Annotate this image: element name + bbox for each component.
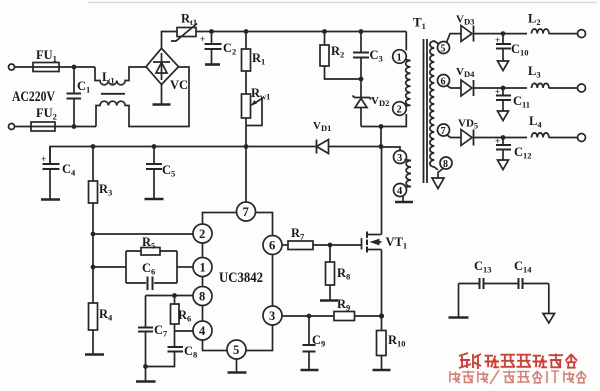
wire pin7s to VD5 [447,135,461,138]
capacitor C1 [73,67,75,94]
potentiometer Rw1 [242,94,251,118]
junction R8 top [328,243,333,248]
svg-text:UC3842: UC3842 [219,270,263,286]
T1 secondary winding [430,41,440,170]
capacitor C13 C14 top wire [459,283,549,285]
bridge rectifier VC [146,48,179,84]
diode VD4 [461,80,472,96]
junction C5 top [152,144,157,149]
watermark line1 text zhangfei shizhan dianzi [485,354,578,369]
DC rail wire right of VD1 [329,146,382,148]
svg-text:+: + [41,154,46,164]
T1 pin 3 [394,151,407,164]
capacitor C4 [49,147,51,164]
svg-text:6: 6 [269,239,275,253]
resistor R10 [381,316,383,331]
T1 pin 5 [438,42,450,54]
T1 pin 8 [440,157,452,169]
inductor L4 [532,133,549,138]
ground bridge [161,85,163,105]
ground C9 [301,369,319,372]
capacitor C2 [211,32,213,44]
svg-text:R10: R10 [388,333,406,349]
transformer core [423,39,425,183]
capacitor C3 [360,32,362,53]
capacitor C5 [153,147,155,164]
watermark logo mark [459,353,481,369]
capacitor C9 [308,316,310,345]
pin 8 [193,287,212,306]
svg-text:L2: L2 [528,12,541,28]
diode VD5 [461,130,472,146]
svg-text:C11: C11 [513,94,530,110]
svg-text:1: 1 [200,261,206,275]
resistor R8 [329,245,331,262]
svg-text:4: 4 [199,324,206,338]
wire VD4 to L3 [474,87,528,89]
wire network to pin 1 [177,266,193,268]
ground R4 [85,353,104,356]
T1 pin 1 [393,50,407,64]
wire L2 to output [549,33,578,35]
junction C12 [501,135,506,140]
svg-text:L1: L1 [102,70,115,86]
svg-text:C8: C8 [184,344,197,360]
scan artifact line top [88,2,597,4]
pin 6 [263,236,282,255]
inductor L1 bottom winding [96,67,189,127]
ground C14 right triangle [548,284,550,314]
junction R5C6 wire [91,265,96,270]
pin 7 [237,202,256,221]
input terminal bottom [9,124,15,130]
capacitor C11 [502,88,504,95]
capacitor C6 [147,277,149,291]
svg-text:AC220V: AC220V [12,89,55,105]
svg-text:R6: R6 [178,308,191,324]
output terminal 2 [578,84,586,92]
svg-text:C3: C3 [370,48,383,64]
capacitor C13 [479,278,481,289]
wire drain up to node [381,147,383,235]
wire bridge top to Rt1 [162,32,178,49]
svg-text:+: + [495,136,500,146]
junction R6 top [172,293,177,298]
wire R7 to gate [313,244,362,246]
ground pin5 [228,371,247,374]
svg-text:6: 6 [441,77,446,88]
junction drain node top [379,124,384,129]
junction C3 top [359,29,364,34]
svg-text:C1: C1 [77,79,90,95]
op IC UC3842 box U1 [203,213,273,351]
pin 5 [227,340,246,359]
svg-text:+: + [200,34,205,44]
svg-text:FU1: FU1 [36,48,57,64]
svg-text:2: 2 [199,227,205,241]
resistor R4 [89,303,98,330]
wire source down [381,250,383,317]
svg-text:VT1: VT1 [386,235,408,251]
junction C1 bottom [72,124,77,129]
diode VD1 [316,140,318,154]
wire C7 to pin 8 [146,295,194,297]
svg-text:C14: C14 [514,259,532,275]
resistor R3 [92,147,94,182]
resistor R1 [245,32,247,50]
junction C9 top [307,314,312,319]
T1 primary winding [405,60,411,107]
wire R9 to source node [355,315,382,317]
wire VD5 to L4 [474,137,528,139]
ground C5 [145,198,164,201]
svg-text:VD3: VD3 [456,14,474,27]
capacitor C7 [145,296,147,328]
junction C10 [501,31,506,36]
ground R8 [320,299,338,302]
svg-text:8: 8 [443,159,448,170]
pin 4 [193,321,212,340]
junction C11 [501,86,506,91]
capacitor C12 [502,138,504,145]
capacitor C8 [174,331,176,347]
svg-text:C4: C4 [62,162,76,178]
svg-text:C2: C2 [223,41,236,57]
T1 pin 4 [394,184,407,197]
svg-text:L3: L3 [528,64,541,80]
resistor R5 [141,248,160,256]
wire L3 to output [549,87,578,89]
svg-text:3: 3 [269,309,275,323]
svg-text:5: 5 [233,343,239,357]
resistor R7 [288,241,313,250]
svg-text:VC: VC [170,78,188,92]
svg-text:C5: C5 [162,163,175,179]
output terminal 3 [578,134,586,142]
ground C13 left bar [458,284,460,318]
wire bottom input to C1 node [15,126,97,128]
resistor R6 [174,296,176,305]
svg-text:+: + [495,87,500,97]
junction R3 top [91,144,96,149]
svg-text:C10: C10 [511,42,529,58]
svg-text:VD1: VD1 [313,120,331,133]
wire VD2 bottom to T1 pin2 [361,114,406,127]
svg-text:2: 2 [397,105,402,116]
svg-text:C13: C13 [474,259,492,275]
svg-text:R2: R2 [331,44,344,60]
svg-text:VD2: VD2 [371,95,389,108]
svg-text:R7: R7 [291,226,305,242]
wire pin6 to R7 [282,244,288,246]
ground R10 [373,369,391,372]
svg-text:3: 3 [397,153,402,164]
ground T1 pin4 [402,196,404,202]
wire pin5 to VD3 [447,34,462,43]
svg-text:5: 5 [441,44,446,55]
fuse FU1 [33,63,59,72]
zener diode VD2 [360,79,362,98]
svg-text:7: 7 [243,205,249,219]
wire to R5 C6 network [93,266,126,268]
wire L4 to output [549,137,578,139]
transistor VT1 mosfet [361,238,363,250]
svg-text:R9: R9 [337,297,350,313]
wire to pin 2 [93,233,193,235]
svg-text:7: 7 [441,126,446,137]
T1 pin 6 [438,75,450,87]
wire VD3 to L2 [474,33,528,35]
junction rail pin7 [244,144,249,149]
resistor R9 [334,312,355,321]
junction R10 top [379,313,384,318]
svg-text:R5: R5 [142,235,155,251]
svg-text:R4: R4 [99,307,113,323]
svg-text:VD4: VD4 [456,66,475,79]
watermark line2 text toutiaohao wolonghui IT jishu [450,370,586,384]
svg-text:8: 8 [199,290,205,304]
ground C2 [205,63,220,66]
wire R6 C8 to pin 4 [175,330,194,332]
wire pin8 to ground [438,169,443,179]
fuse FU2 [31,122,55,131]
svg-text:R1: R1 [252,51,265,67]
capacitor C14 [518,278,520,289]
T1 pin 7s [438,124,450,136]
svg-text:Rt1: Rt1 [181,12,197,28]
ground C4 [41,198,60,201]
svg-text:+: + [495,35,500,45]
input terminal top [9,64,15,70]
T1 pin 2 [393,102,407,116]
ground C11 [498,111,509,121]
svg-text:C6: C6 [142,261,155,277]
svg-text:1: 1 [397,53,402,64]
pin 1 [193,258,212,277]
capacitor C10 [502,34,504,44]
junction rail right end [379,144,384,149]
ground C10 [498,61,509,71]
svg-text:C7: C7 [154,323,168,339]
inductor L1 top winding [95,67,146,85]
inductor L2 [532,29,549,34]
wire top input to C1 node [15,66,96,68]
ground C7 C8 [136,380,156,383]
pin 2 [193,224,212,243]
svg-text:L4: L4 [529,114,542,130]
resistor R2 [324,32,326,46]
wire rail to pin7 [245,147,247,203]
inductor L3 [532,83,549,88]
output terminal 1 [578,30,586,38]
junction C3 VD2 [359,77,364,82]
ground T1 pin8 [432,178,444,189]
wire pin5 ground [236,359,238,372]
svg-text:R8: R8 [337,266,350,282]
svg-text:R3: R3 [99,182,112,198]
thermistor Rt1 [177,28,196,37]
wire node to rail [380,127,382,148]
ground C12 [498,160,509,170]
junction C2 [209,29,214,34]
junction R1 top [244,29,249,34]
svg-text:4: 4 [397,186,403,197]
pin 3 [263,306,282,325]
svg-text:T1: T1 [413,15,426,32]
svg-text:Rw1: Rw1 [251,86,270,102]
transformer T1 pin1 wire [405,32,407,51]
junction R2 top [322,29,327,34]
svg-text:FU2: FU2 [36,106,57,122]
junction C7 C8 ground [143,364,148,369]
diode VD3 [461,26,472,42]
junction pin2 wire [91,232,96,237]
wire pin3 R9 [282,315,334,317]
svg-text:C9: C9 [312,333,325,349]
R5 C6 parallel frame [126,251,177,283]
wire Rt1 to T1 pin1 top rail [196,31,406,33]
DC rail wire left [50,147,317,164]
svg-text:C12: C12 [514,145,532,161]
wire pin6 to VD4 [447,86,461,89]
svg-text:VD5: VD5 [458,118,478,131]
wire node to aux winding pin3 [381,147,400,151]
junction C1 top [72,65,77,70]
T1 aux winding [405,160,412,188]
